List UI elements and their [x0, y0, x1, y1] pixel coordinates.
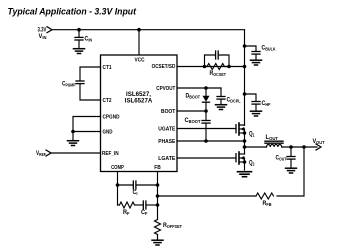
- capacitor CPUMP: [62, 81, 84, 87]
- node junction dot FB/CI: [156, 183, 160, 187]
- node junction dot phase/LOUT: [243, 145, 247, 149]
- svg-text:VCC: VCC: [135, 58, 145, 64]
- svg-text:PHASE: PHASE: [158, 139, 175, 145]
- capacitor CBOOT: [185, 111, 211, 141]
- svg-text:COUT: COUT: [276, 156, 287, 162]
- node junction dot PHASE rail: [243, 139, 247, 143]
- capacitor CI: [133, 181, 138, 196]
- wire CPVOUT pin: [177, 87, 221, 89]
- ground below CIN: [74, 49, 85, 54]
- svg-text:LGATE: LGATE: [158, 156, 175, 162]
- wire VIN right rail down to Q1 drain: [244, 30, 246, 126]
- node VIN input terminal: [38, 27, 53, 40]
- node junction dot CBULK: [243, 44, 247, 48]
- node junction dot CPGND/GND: [71, 130, 75, 134]
- wire LGATE pin: [177, 157, 236, 159]
- wire FB pin down: [157, 172, 159, 220]
- wire CT1 to CPUMP bracket: [80, 67, 101, 81]
- capacitor CBULK: [245, 45, 277, 59]
- wire REF_IN: [51, 152, 101, 154]
- transistor Q1: [236, 123, 255, 141]
- node junction dot OCSET rail: [243, 65, 247, 69]
- node junction dot COUT: [289, 145, 293, 149]
- svg-text:3.3V: 3.3V: [38, 27, 47, 33]
- node junction dot VOUT/RFB: [302, 145, 306, 149]
- wire GND pin: [73, 131, 101, 133]
- svg-text:CT1: CT1: [103, 65, 112, 71]
- wire VIN top rail: [52, 29, 245, 31]
- svg-text:CPVOUT: CPVOUT: [156, 86, 176, 92]
- svg-text:CPUMP: CPUMP: [62, 81, 76, 87]
- svg-text:CF: CF: [141, 210, 148, 216]
- svg-text:UGATE: UGATE: [158, 126, 175, 132]
- wire RF to CF: [135, 204, 144, 206]
- svg-text:RFB: RFB: [263, 201, 272, 207]
- inductor LOUT: [265, 135, 283, 147]
- wire CF to FB: [146, 204, 157, 206]
- svg-text:OCSET/SD: OCSET/SD: [152, 64, 176, 70]
- svg-text:Typical Application - 3.3V Inp: Typical Application - 3.3V Input: [8, 6, 137, 17]
- node VOUT terminal: [313, 139, 325, 150]
- diode DBOOT: [186, 88, 210, 111]
- node junction dot CPVOUT/DBOOT: [204, 86, 208, 90]
- node junction dot COMP/CI: [116, 183, 120, 187]
- capacitor over ROCSET: [205, 51, 230, 67]
- wire CI branch left: [118, 184, 134, 186]
- node junction dot ROCSET right: [227, 65, 231, 69]
- wire GND to ground: [72, 132, 74, 141]
- resistor ROFFSET: [155, 220, 183, 235]
- svg-text:CT2: CT2: [103, 98, 112, 104]
- svg-text:ISL6527A: ISL6527A: [125, 99, 153, 105]
- svg-text:VIN: VIN: [39, 34, 47, 40]
- wire FB to RFB: [158, 195, 257, 197]
- wire COMP pin down: [117, 172, 119, 206]
- wire CI branch right: [136, 184, 157, 186]
- wire CPUMP bracket to CT2: [80, 84, 101, 100]
- resistor ROCSET: [205, 64, 228, 77]
- svg-text:RF: RF: [123, 210, 130, 216]
- capacitor COUT: [276, 147, 296, 168]
- capacitor CIN: [75, 30, 92, 48]
- wire LOUT to VOUT: [282, 146, 317, 148]
- capacitor CDCPL: [217, 88, 241, 104]
- svg-text:ROCSET: ROCSET: [210, 71, 227, 77]
- transistor Q2: [236, 152, 255, 170]
- resistor RFB: [256, 193, 274, 207]
- node junction dot FB/CF: [156, 203, 160, 207]
- wire BOOT pin: [177, 110, 206, 112]
- svg-text:VREF: VREF: [36, 151, 46, 157]
- svg-text:CBOOT: CBOOT: [185, 118, 201, 124]
- ground below CHF: [251, 111, 262, 116]
- svg-text:CBULK: CBULK: [262, 45, 277, 51]
- svg-text:CI: CI: [133, 190, 138, 196]
- part name ISL6527/ISL6527A: [125, 92, 153, 105]
- ground below Q2: [238, 172, 252, 177]
- node junction dot VCC: [137, 28, 141, 32]
- svg-text:COMP: COMP: [111, 165, 124, 171]
- node junction dot FB/RFB: [156, 194, 160, 198]
- svg-text:CHF: CHF: [262, 101, 271, 107]
- wire ROFFSET to ground: [157, 235, 159, 240]
- wire COMP corner to RF: [118, 204, 120, 206]
- svg-text:REF_IN: REF_IN: [102, 151, 119, 157]
- wire CPGND bracket: [73, 117, 101, 132]
- capacitor CHF: [245, 94, 271, 111]
- ground below COUT: [286, 168, 297, 173]
- ground below GND pins: [68, 141, 79, 146]
- wire UGATE pin: [177, 128, 236, 130]
- ground below ROFFSET: [152, 240, 163, 245]
- wire RFB to VOUT feedback: [277, 147, 304, 196]
- node junction dot PHASE/CBOOT: [204, 139, 208, 143]
- svg-text:VOUT: VOUT: [313, 139, 325, 145]
- capacitor CF: [141, 201, 148, 216]
- svg-text:LOUT: LOUT: [266, 135, 279, 141]
- svg-text:GND: GND: [103, 129, 113, 135]
- wire OCSET/SD pin: [177, 66, 245, 68]
- node junction dot CIN: [77, 28, 81, 32]
- node junction dot BOOT: [204, 109, 208, 113]
- wire PHASE node down to Q2: [244, 141, 246, 154]
- op-amp U1 ISL6527 IC body: [101, 55, 178, 172]
- svg-text:CDCPL: CDCPL: [227, 97, 241, 103]
- node junction dot ROCSET left: [203, 65, 207, 69]
- wire PHASE pin: [177, 140, 245, 142]
- node junction dot CHF: [243, 92, 247, 96]
- svg-text:ISL6527,: ISL6527,: [126, 92, 151, 98]
- svg-text:FB: FB: [154, 165, 161, 171]
- svg-text:Q1: Q1: [249, 131, 255, 137]
- resistor RF: [120, 202, 135, 216]
- svg-text:Q2: Q2: [249, 160, 255, 166]
- svg-text:CPGND: CPGND: [103, 114, 120, 120]
- ground below CBULK: [251, 60, 262, 65]
- wire phase node to LOUT: [245, 146, 267, 148]
- node VREF input terminal: [36, 150, 51, 157]
- ground below CDCPL: [216, 105, 227, 110]
- svg-text:DBOOT: DBOOT: [186, 93, 201, 99]
- wire VCC pin: [138, 30, 140, 55]
- svg-text:CIN: CIN: [85, 36, 93, 42]
- svg-text:BOOT: BOOT: [161, 109, 176, 115]
- svg-text:ROFFSET: ROFFSET: [163, 223, 182, 229]
